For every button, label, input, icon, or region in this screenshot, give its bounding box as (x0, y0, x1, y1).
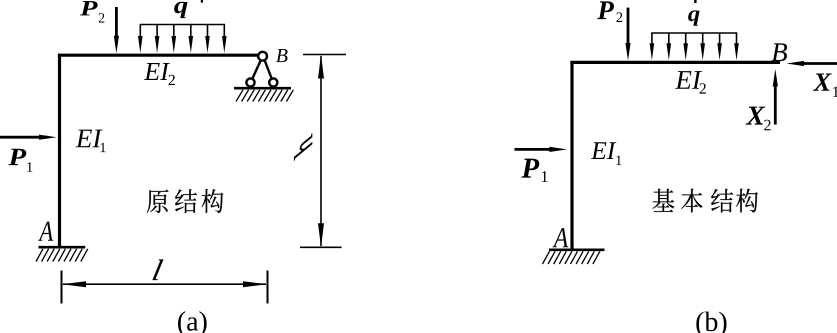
distributed load arrows (left) (139, 25, 141, 44)
roller support at B: right leg (265, 60, 272, 79)
roller support at B: roller circles (246, 78, 254, 86)
label X1 (813, 73, 832, 90)
dimension l: left tick (61, 271, 63, 304)
frame column (left) (58, 54, 61, 247)
label P2 (right) (597, 1, 614, 19)
node B label (left) (276, 49, 288, 62)
redundant force X1 arrow (796, 62, 837, 65)
label EI2 (left) (144, 63, 170, 80)
label EI1 (right) (591, 142, 616, 159)
roller support at B: ground line (234, 87, 291, 90)
frame beam (left) (58, 54, 259, 57)
label h (rotated) (294, 133, 312, 162)
caption (b) (696, 312, 726, 333)
label q (left) (174, 2, 187, 18)
label EI2 (right) (675, 71, 702, 89)
label P1 (left) (8, 149, 26, 165)
dimension h: bottom tick (300, 246, 342, 248)
text 基本结构 (652, 189, 674, 212)
node A label (right) (552, 228, 568, 247)
fixed support at A: hatching (left) (36, 249, 43, 262)
stray mark top (left) (201, 0, 203, 3)
force P2 arrow (right) (627, 8, 630, 51)
label q (right) (688, 10, 699, 25)
dimension l: right tick (267, 271, 269, 304)
roller support at B: left leg (252, 60, 261, 79)
roller support at B: pin circle (258, 52, 267, 61)
label X2 (746, 107, 766, 125)
node B label (right) (771, 43, 787, 61)
label P2 (left) (80, 1, 98, 15)
stray mark top (right) (694, 0, 696, 3)
dimension h: top tick (303, 54, 346, 56)
force P2 arrow (left) (115, 7, 118, 44)
fixed support at A: ground line (left) (39, 246, 86, 249)
distributed load top line (right) (651, 32, 737, 34)
label EI1 (left) (76, 130, 103, 148)
dimension l: arrowheads (62, 281, 86, 287)
redundant force X2 arrow (774, 79, 777, 125)
roller support at B: hatching (236, 90, 243, 102)
distributed load top line (left) (140, 24, 225, 26)
dimension h: arrowheads (318, 55, 324, 79)
caption (a) (178, 311, 207, 333)
text 原结构 (147, 189, 169, 213)
fixed support at A: hatching (right) (543, 251, 550, 264)
label l (153, 260, 164, 280)
dimension h: vertical line (320, 56, 322, 246)
fixed support at A: ground line (right) (549, 249, 605, 252)
force P1 arrow (right) (515, 148, 558, 151)
dimension l: line (63, 283, 266, 285)
node A label (left) (38, 222, 53, 241)
label P1 (right) (521, 159, 539, 178)
frame column (right) (570, 61, 573, 250)
frame beam (right) (570, 61, 780, 64)
distributed load arrows (right) (651, 33, 653, 51)
force P1 arrow (left) (0, 136, 47, 139)
